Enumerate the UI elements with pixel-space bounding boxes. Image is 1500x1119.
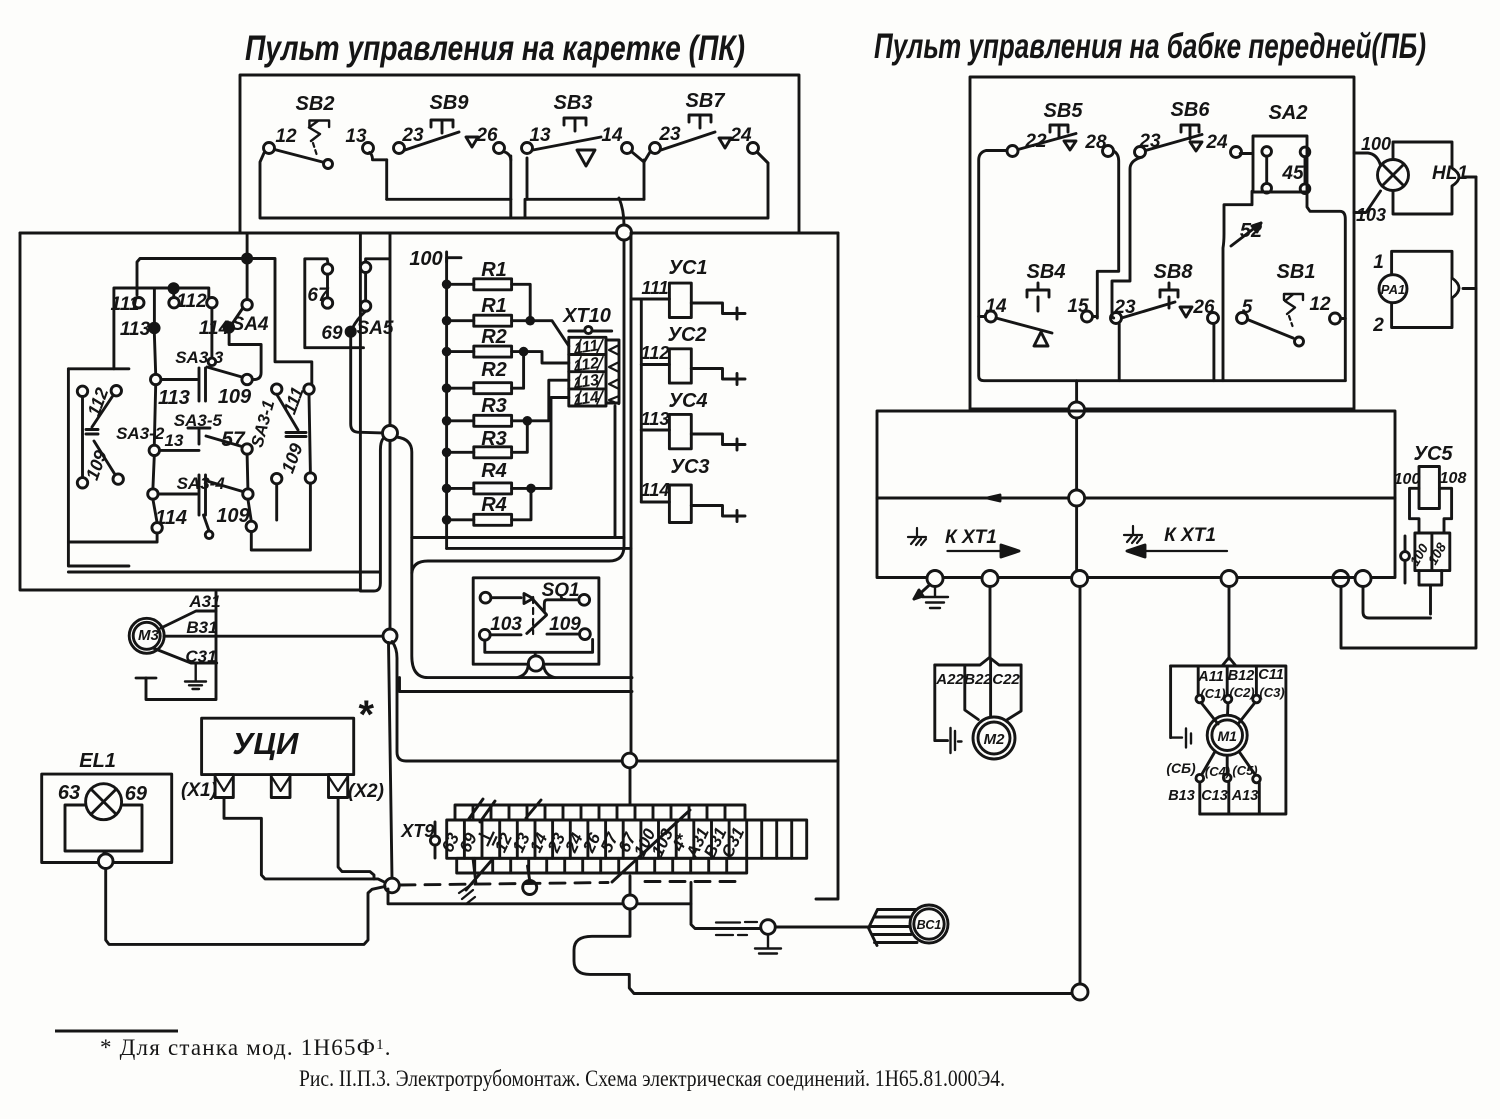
svg-text:SQ1: SQ1 bbox=[542, 580, 580, 601]
svg-text:SB4: SB4 bbox=[1027, 261, 1066, 283]
svg-text:109: 109 bbox=[549, 614, 581, 635]
svg-text:111: 111 bbox=[641, 278, 668, 298]
svg-text:100: 100 bbox=[1361, 134, 1391, 154]
svg-text:R3: R3 bbox=[481, 428, 507, 450]
svg-text:26: 26 bbox=[1192, 297, 1215, 318]
svg-text:УС5: УС5 bbox=[1413, 443, 1453, 465]
svg-text:45: 45 bbox=[1281, 163, 1304, 184]
svg-text:SB1: SB1 bbox=[1277, 261, 1316, 283]
svg-text:112: 112 bbox=[176, 291, 207, 312]
svg-text:26: 26 bbox=[475, 125, 498, 146]
svg-text:* Для станка мод. 1Н65Ф1.: * Для станка мод. 1Н65Ф1. bbox=[100, 1035, 392, 1060]
svg-text:(Х2): (Х2) bbox=[348, 781, 384, 802]
svg-text:EL1: EL1 bbox=[79, 750, 116, 772]
svg-text:(С4): (С4) bbox=[1205, 764, 1230, 779]
svg-text:69: 69 bbox=[321, 323, 343, 344]
svg-text:109: 109 bbox=[218, 386, 252, 408]
svg-text:112: 112 bbox=[641, 343, 670, 363]
svg-text:SA3-2: SA3-2 bbox=[116, 424, 165, 443]
svg-text:12: 12 bbox=[1309, 294, 1331, 315]
svg-text:Пульт управления на бабке пере: Пульт управления на бабке передней(ПБ) bbox=[874, 27, 1426, 66]
svg-text:ВС1: ВС1 bbox=[917, 918, 942, 932]
svg-text:SA3-3: SA3-3 bbox=[175, 348, 224, 367]
svg-text:К ХТ1: К ХТ1 bbox=[945, 527, 997, 548]
svg-text:113: 113 bbox=[641, 409, 670, 429]
svg-text:С13: С13 bbox=[1201, 788, 1228, 804]
svg-text:63: 63 bbox=[58, 782, 80, 804]
svg-text:М2: М2 bbox=[984, 731, 1005, 748]
svg-text:R2: R2 bbox=[481, 326, 507, 348]
svg-text:12: 12 bbox=[275, 126, 297, 147]
svg-text:24: 24 bbox=[1205, 132, 1228, 153]
svg-text:В13: В13 bbox=[1168, 788, 1195, 804]
svg-text:SA3-4: SA3-4 bbox=[177, 474, 226, 493]
svg-text:SB2: SB2 bbox=[296, 93, 335, 115]
svg-text:А31: А31 bbox=[188, 592, 220, 611]
svg-text:R4: R4 bbox=[481, 494, 507, 516]
svg-text:М3: М3 bbox=[138, 627, 159, 644]
svg-text:SB5: SB5 bbox=[1044, 100, 1084, 122]
svg-text:А13: А13 bbox=[1231, 788, 1259, 804]
svg-text:Пульт управления на каретке (: Пульт управления на каретке (ПК) bbox=[245, 29, 745, 68]
svg-text:14: 14 bbox=[985, 296, 1007, 317]
svg-text:А11: А11 bbox=[1197, 669, 1224, 685]
svg-text:100: 100 bbox=[409, 248, 442, 270]
svg-text:R1: R1 bbox=[481, 259, 507, 281]
svg-text:R1: R1 bbox=[481, 295, 507, 317]
svg-text:23: 23 bbox=[1138, 131, 1161, 152]
svg-text:(С5): (С5) bbox=[1232, 763, 1257, 778]
svg-text:23: 23 bbox=[401, 125, 424, 146]
svg-text:*: * bbox=[357, 693, 375, 737]
svg-text:SB9: SB9 bbox=[430, 92, 470, 114]
svg-text:УС2: УС2 bbox=[667, 324, 706, 346]
svg-text:114: 114 bbox=[641, 480, 670, 500]
svg-text:SB8: SB8 bbox=[1154, 261, 1194, 283]
svg-text:103: 103 bbox=[490, 614, 522, 635]
svg-text:А22: А22 bbox=[935, 671, 964, 688]
svg-text:С22: С22 bbox=[992, 671, 1020, 688]
svg-text:1: 1 bbox=[1373, 252, 1384, 273]
svg-text:103: 103 bbox=[1356, 205, 1386, 225]
svg-text:РА1: РА1 bbox=[1381, 282, 1405, 297]
svg-text:R3: R3 bbox=[481, 395, 507, 417]
svg-text:69: 69 bbox=[125, 783, 148, 805]
svg-text:(СБ): (СБ) bbox=[1166, 760, 1196, 776]
svg-text:В12: В12 bbox=[1228, 668, 1255, 684]
svg-text:HL1: HL1 bbox=[1432, 163, 1468, 184]
svg-text:SB7: SB7 bbox=[686, 90, 726, 112]
svg-text:(Х1): (Х1) bbox=[181, 780, 217, 801]
svg-text:С11: С11 bbox=[1258, 667, 1284, 683]
svg-text:24: 24 bbox=[729, 125, 752, 146]
svg-text:R2: R2 bbox=[481, 359, 507, 381]
svg-text:109: 109 bbox=[216, 505, 250, 527]
svg-text:52: 52 bbox=[1240, 220, 1262, 242]
svg-text:13: 13 bbox=[345, 126, 367, 147]
svg-text:М1: М1 bbox=[1217, 728, 1237, 744]
svg-text:УС1: УС1 bbox=[668, 257, 707, 279]
svg-text:57: 57 bbox=[221, 428, 246, 451]
svg-text:23: 23 bbox=[658, 124, 681, 145]
svg-text:ХТ10: ХТ10 bbox=[562, 305, 611, 327]
svg-text:В31: В31 bbox=[186, 618, 217, 637]
svg-text:22: 22 bbox=[1024, 131, 1047, 152]
svg-text:SA4: SA4 bbox=[232, 314, 269, 335]
svg-text:13: 13 bbox=[529, 125, 551, 146]
svg-text:SA3-5: SA3-5 bbox=[174, 411, 223, 430]
svg-text:Рис. II.П.3. Электротрубомон: Рис. II.П.3. Электротрубомонтаж. Схема э… bbox=[299, 1066, 1005, 1091]
svg-text:ХТ9: ХТ9 bbox=[400, 821, 434, 841]
svg-text:К ХТ1: К ХТ1 bbox=[1164, 525, 1216, 546]
svg-text:(С1): (С1) bbox=[1200, 686, 1225, 701]
svg-text:114: 114 bbox=[199, 318, 230, 339]
svg-text:SB6: SB6 bbox=[1171, 99, 1211, 121]
svg-text:(С3): (С3) bbox=[1259, 685, 1284, 700]
svg-text:100: 100 bbox=[1394, 471, 1421, 488]
svg-text:УС4: УС4 bbox=[668, 390, 707, 412]
svg-text:С31: С31 bbox=[185, 647, 216, 666]
svg-text:SA5: SA5 bbox=[357, 318, 394, 339]
svg-text:108: 108 bbox=[1440, 470, 1467, 487]
svg-text:SB3: SB3 bbox=[554, 92, 593, 114]
svg-text:28: 28 bbox=[1084, 132, 1107, 153]
svg-text:114: 114 bbox=[155, 507, 187, 529]
svg-text:113: 113 bbox=[158, 387, 190, 409]
svg-text:114: 114 bbox=[573, 389, 601, 409]
svg-text:(С2): (С2) bbox=[1229, 685, 1254, 700]
svg-text:13: 13 bbox=[165, 431, 184, 450]
svg-text:23: 23 bbox=[1113, 297, 1136, 318]
svg-text:67: 67 bbox=[307, 285, 330, 306]
svg-text:SA2: SA2 bbox=[1269, 102, 1308, 124]
svg-text:14: 14 bbox=[601, 125, 623, 146]
svg-text:УЦИ: УЦИ bbox=[232, 726, 299, 761]
svg-text:15: 15 bbox=[1067, 296, 1089, 317]
svg-text:В22: В22 bbox=[964, 671, 992, 688]
svg-text:2: 2 bbox=[1372, 315, 1384, 336]
svg-text:R4: R4 bbox=[481, 460, 507, 482]
svg-text:УС3: УС3 bbox=[670, 456, 709, 478]
svg-text:113: 113 bbox=[120, 319, 151, 340]
svg-text:5: 5 bbox=[1242, 297, 1253, 318]
svg-text:111: 111 bbox=[111, 294, 140, 315]
